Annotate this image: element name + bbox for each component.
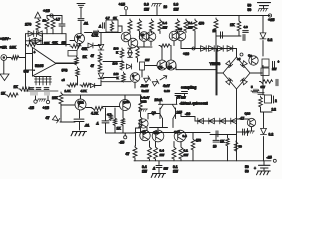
svg-text:3W: 3W [261,85,266,89]
svg-text:1W: 1W [188,26,193,30]
svg-text:Q16: Q16 [245,112,251,116]
svg-text:47: 47 [126,152,130,156]
svg-text:10K: 10K [44,41,50,45]
svg-text:4.7: 4.7 [56,18,61,22]
svg-text:=10V~: =10V~ [0,37,11,41]
svg-text:1K: 1K [83,55,88,59]
svg-text:47: 47 [91,64,95,68]
svg-text:1W: 1W [184,153,189,157]
svg-text:YE153: YE153 [210,62,221,66]
svg-text:50: 50 [239,145,243,149]
svg-text:Q13: Q13 [153,131,159,135]
svg-text:3.4: 3.4 [183,134,188,138]
svg-text:2.2: 2.2 [272,108,277,112]
svg-text:Q14: Q14 [174,130,180,134]
svg-text:4.7K: 4.7K [91,112,99,116]
svg-text:Q9: Q9 [152,111,156,115]
svg-text:1W: 1W [144,8,150,12]
svg-text:50: 50 [248,8,252,12]
svg-text:(1M): (1M) [62,68,68,72]
svg-text:-25: -25 [267,156,272,160]
svg-text:+15: +15 [119,3,125,7]
svg-text:1K: 1K [1,92,6,96]
svg-text:Q4: Q4 [158,66,162,70]
svg-text:.1: .1 [99,25,102,29]
svg-text:3.9: 3.9 [144,3,149,7]
svg-text:270: 270 [25,23,31,27]
svg-text:1W: 1W [62,41,67,45]
svg-text:5.1: 5.1 [188,21,193,25]
svg-text:47: 47 [46,116,50,120]
svg-text:1K: 1K [14,85,19,89]
svg-text:Q2: Q2 [77,35,81,39]
svg-text:1W: 1W [160,153,165,157]
svg-text:.5mV: .5mV [141,84,149,88]
svg-text:-120mA quiescent: -120mA quiescent [180,102,209,106]
svg-text:1K: 1K [230,23,235,27]
svg-text:3.1: 3.1 [184,149,189,153]
svg-text:0.06: 0.06 [164,89,170,93]
svg-text:+15: +15 [43,106,49,110]
svg-text:5mW: 5mW [142,89,149,93]
svg-text:Q1: Q1 [141,33,145,37]
svg-text:20uA: 20uA [155,98,163,102]
svg-text:Q6: Q6 [142,130,146,134]
svg-text:4.7K: 4.7K [81,89,88,93]
svg-text:10K: 10K [52,96,59,100]
svg-text:+: + [34,51,36,55]
svg-text:.1: .1 [153,167,156,171]
svg-text:8.2: 8.2 [268,38,273,42]
svg-text:Q1a: Q1a [78,101,84,105]
svg-text:sampling: sampling [181,86,196,90]
svg-text:1K: 1K [220,140,225,144]
svg-text:-15: -15 [119,141,124,145]
svg-text:470: 470 [196,139,202,143]
svg-text:Qa: Qa [248,54,252,58]
svg-text:1W: 1W [272,67,277,71]
svg-text:-20: -20 [185,112,190,116]
svg-text:10K: 10K [10,46,17,50]
svg-text:.1: .1 [96,122,99,126]
svg-text:3.1: 3.1 [173,165,178,169]
svg-text:.01: .01 [84,22,89,26]
svg-text:4.7K: 4.7K [92,34,99,38]
svg-text:=2R: =2R [0,46,7,50]
svg-text:50: 50 [245,170,249,174]
svg-text:75 kW: 75 kW [177,96,186,100]
svg-text:1W: 1W [145,58,150,62]
svg-text:43K: 43K [52,41,58,45]
svg-text:1W: 1W [164,167,169,171]
svg-text:3.4: 3.4 [163,21,168,25]
svg-text:470: 470 [199,22,205,26]
svg-text:4.6: 4.6 [244,25,249,29]
svg-text:+15: +15 [43,8,51,13]
svg-text:100: 100 [113,62,118,66]
svg-text:Q5: Q5 [168,66,172,70]
svg-text:43K: 43K [82,47,89,51]
svg-text:3.4: 3.4 [142,165,147,169]
svg-text:16: 16 [164,5,168,9]
svg-text:4mV: 4mV [163,84,171,88]
svg-text:-15: -15 [29,106,35,110]
svg-text:1K: 1K [117,127,122,131]
svg-text:4.7: 4.7 [106,16,111,20]
svg-text:.01: .01 [85,124,90,128]
svg-text:47: 47 [91,54,95,58]
svg-text:+25: +25 [268,18,274,22]
svg-text:Q1B: Q1B [123,100,130,104]
svg-text:3.4: 3.4 [160,149,165,153]
svg-text:10: 10 [213,29,217,33]
svg-text:50: 50 [245,165,249,169]
svg-text:10: 10 [213,145,217,149]
svg-text:5205: 5205 [35,64,43,68]
svg-text:+9: +9 [237,57,241,61]
svg-text:-17: -17 [240,117,245,121]
svg-text:18: 18 [43,19,47,23]
svg-text:2: 2 [275,99,277,103]
svg-text:1W: 1W [174,8,180,12]
svg-text:+5: +5 [62,78,66,82]
svg-text:+20: +20 [183,52,189,56]
svg-text:1W: 1W [163,26,168,30]
svg-text:+: + [254,167,256,171]
svg-text:8.2: 8.2 [269,133,274,137]
svg-text:1.6K: 1.6K [65,89,72,93]
svg-text:50: 50 [248,4,252,8]
svg-text:+: + [278,60,280,64]
svg-text:3.9: 3.9 [178,27,182,31]
svg-text:3.9: 3.9 [174,3,179,7]
